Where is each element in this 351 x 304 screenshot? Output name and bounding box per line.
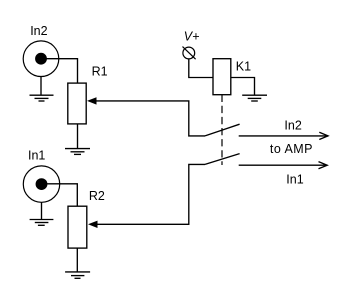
svg-text:In1: In1 (286, 173, 303, 187)
svg-text:R1: R1 (92, 65, 108, 79)
wire coil to ground (231, 78, 255, 96)
wire V+ to relay coil (189, 59, 213, 78)
wire R2 wiper to switch 2 (88, 164, 205, 228)
relay actuator dashed link (221, 95, 223, 165)
switch contact 1 (arm) (205, 124, 240, 136)
wire output 2 (In1 to AMP arrow) (239, 162, 328, 169)
wire R1 bottom (77, 124, 79, 149)
connector In1 (jack) (23, 166, 59, 202)
svg-text:R2: R2 (89, 189, 105, 203)
relay K1 coil (213, 59, 231, 95)
svg-text:In1: In1 (28, 148, 45, 162)
ground (under In2 jack) (30, 77, 54, 102)
wire R1 wiper to switch 1 (87, 97, 205, 136)
ground (under R2) (65, 272, 90, 278)
svg-text:K1: K1 (236, 59, 251, 73)
ground (relay coil) (242, 95, 267, 101)
ground (under R1) (65, 149, 90, 155)
connector In2 (jack) (23, 41, 59, 77)
switch contact 2 (arm) (205, 154, 240, 165)
svg-text:V+: V+ (184, 29, 200, 43)
svg-text:In2: In2 (30, 24, 47, 38)
ground (under In1 jack) (30, 202, 54, 225)
resistor R1 (potentiometer body) (68, 83, 86, 124)
resistor R2 (potentiometer body) (68, 206, 87, 248)
wire R2 bottom (76, 248, 78, 272)
svg-text:to AMP: to AMP (270, 142, 313, 156)
svg-text:In2: In2 (284, 118, 301, 132)
wire In2 jack to R1 top (41, 59, 78, 83)
power V+ symbol (183, 47, 196, 60)
wire In1 jack to R2 top (42, 184, 78, 206)
wire output 1 (In2 to AMP arrow) (239, 132, 328, 139)
